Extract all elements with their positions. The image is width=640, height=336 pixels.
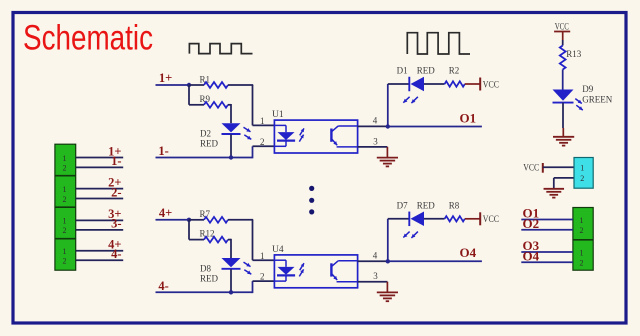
LED D1 emission arrows [403, 97, 409, 103]
wire 4+ to R7 [189, 219, 204, 221]
input square wave symbol [189, 44, 252, 54]
svg-text:O1: O1 [460, 110, 477, 125]
wire VCC to J2 pin1 [543, 166, 574, 168]
svg-text:Schematic: Schematic [23, 19, 153, 58]
wire J1 pin 2 [76, 166, 124, 168]
svg-text:D1: D1 [397, 66, 408, 76]
wire J2 pin2 to ground [554, 177, 574, 179]
svg-text:R13: R13 [566, 49, 582, 59]
wire output riser [387, 219, 389, 261]
svg-text:1: 1 [580, 163, 584, 172]
svg-text:VCC: VCC [483, 215, 499, 225]
svg-text:O4: O4 [523, 248, 540, 263]
wire 1- to pin2 [252, 146, 254, 158]
svg-text:D7: D7 [397, 200, 408, 210]
svg-text:VCC: VCC [555, 22, 569, 32]
svg-text:1: 1 [260, 251, 265, 261]
power VCC O4 [479, 212, 481, 225]
svg-text:2: 2 [260, 137, 265, 147]
svg-text:1: 1 [63, 247, 67, 256]
svg-text:O2: O2 [523, 216, 540, 231]
svg-text:U4: U4 [272, 245, 284, 255]
svg-text:4-: 4- [111, 247, 121, 261]
ground U1 emitter [386, 147, 388, 158]
wire J1 pin 1 [76, 157, 124, 159]
svg-text:4: 4 [373, 250, 378, 260]
wire D2 cathode [230, 134, 232, 157]
wire J1 pin 5 [76, 219, 124, 221]
wire 1+ input [156, 84, 190, 86]
junction output node [386, 259, 390, 263]
svg-text:1: 1 [63, 154, 67, 163]
svg-text:2: 2 [63, 164, 67, 173]
wire VCC to R13 [562, 40, 564, 46]
svg-text:R8: R8 [449, 200, 460, 210]
svg-text:1: 1 [580, 248, 584, 257]
connector J1 body [55, 144, 76, 270]
wire branch down to R12 [188, 220, 190, 240]
wire D8 cathode [230, 269, 232, 292]
wire output riser [387, 84, 389, 127]
svg-text:3: 3 [373, 271, 378, 281]
connector J3 body [573, 208, 593, 271]
ground U4 emitter [386, 282, 388, 293]
svg-text:D8: D8 [200, 263, 211, 273]
svg-text:O4: O4 [460, 245, 477, 260]
svg-text:RED: RED [417, 66, 436, 76]
junction output node [386, 124, 390, 128]
ground J2 [544, 188, 565, 190]
svg-text:2-: 2- [111, 185, 121, 199]
wire riser to D7 [388, 218, 410, 220]
wire pin4 U1 [358, 125, 388, 127]
svg-text:2: 2 [580, 174, 584, 183]
wire 4- to pin2 [252, 281, 254, 293]
wire J1 pin 6 [76, 229, 124, 231]
svg-text:2: 2 [63, 195, 67, 204]
wire J1 pin 3 [76, 188, 124, 190]
svg-text:3-: 3- [111, 217, 121, 231]
wire O4 [388, 260, 482, 262]
wire J1 pin 4 [76, 198, 124, 200]
wire pin4 U4 [358, 260, 388, 262]
wire R2 to VCC [465, 83, 480, 85]
junction 1+ node [187, 83, 191, 87]
svg-text:1: 1 [580, 216, 584, 225]
svg-text:RED: RED [200, 273, 219, 283]
junction 4+ node [187, 218, 191, 222]
ellipsis dots [309, 186, 314, 191]
LED D8 emission arrows [244, 262, 251, 267]
svg-text:VCC: VCC [523, 164, 539, 174]
wire J1 pin 7 [76, 250, 124, 252]
wire 4- input [156, 291, 253, 293]
output square wave symbol [407, 33, 470, 54]
junction D8 cathode node [229, 290, 233, 294]
svg-text:1: 1 [63, 217, 67, 226]
wire D1 to R2 [424, 83, 445, 85]
wire 4+ input [156, 219, 190, 221]
svg-text:1: 1 [260, 116, 265, 126]
wire 1- input [156, 157, 253, 159]
svg-text:1: 1 [63, 185, 67, 194]
wire R7 to pin1 corner [228, 219, 253, 221]
wire O1 [388, 126, 482, 128]
svg-text:2: 2 [63, 226, 67, 235]
LED D2 emission arrows [244, 127, 251, 132]
ground D9 [562, 128, 564, 137]
wire J1 pin 8 [76, 259, 124, 261]
wire R9 to D2 [228, 104, 231, 106]
svg-text:1+: 1+ [159, 71, 172, 85]
wire R12 to D8 [228, 239, 231, 241]
wire O1 to J3 [521, 219, 573, 221]
svg-text:4+: 4+ [159, 206, 172, 220]
svg-text:2: 2 [580, 226, 584, 235]
wire D7 to R8 [424, 218, 445, 220]
svg-text:D9: D9 [582, 84, 593, 94]
svg-text:2: 2 [63, 257, 67, 266]
svg-text:4: 4 [373, 116, 378, 126]
wire pin3 U4 [358, 281, 388, 283]
svg-text:U1: U1 [272, 110, 284, 120]
svg-text:RED: RED [200, 139, 219, 149]
wire R8 to VCC [465, 218, 480, 220]
svg-text:VCC: VCC [483, 80, 499, 90]
wire 1+ to R1 [189, 84, 204, 86]
connector J2 body [574, 158, 593, 189]
wire O2 to J3 [521, 229, 573, 231]
wire pin3 U1 [358, 146, 388, 148]
wire O3 to J3 [521, 251, 573, 253]
wire R13 to D9 [562, 70, 564, 90]
LED D7 emission arrows [403, 232, 409, 238]
svg-text:GREEN: GREEN [582, 95, 612, 105]
svg-text:2: 2 [260, 272, 265, 282]
LED D9 emission arrows [575, 99, 582, 104]
svg-text:D2: D2 [200, 129, 211, 139]
svg-text:3: 3 [373, 136, 378, 146]
wire riser to D1 [388, 83, 410, 85]
power VCC O1 [479, 78, 481, 91]
svg-text:1-: 1- [158, 144, 168, 158]
svg-text:4-: 4- [158, 279, 168, 293]
wire O4 to J3 [521, 261, 573, 263]
junction D2 cathode node [229, 155, 233, 159]
wire R1 to pin1 corner [228, 84, 253, 86]
svg-text:2: 2 [580, 259, 584, 268]
svg-text:1-: 1- [111, 154, 121, 168]
wire branch down to R9 [188, 85, 190, 105]
svg-text:R2: R2 [449, 66, 460, 76]
wire D9 to ground [562, 103, 564, 128]
svg-text:RED: RED [417, 200, 436, 210]
